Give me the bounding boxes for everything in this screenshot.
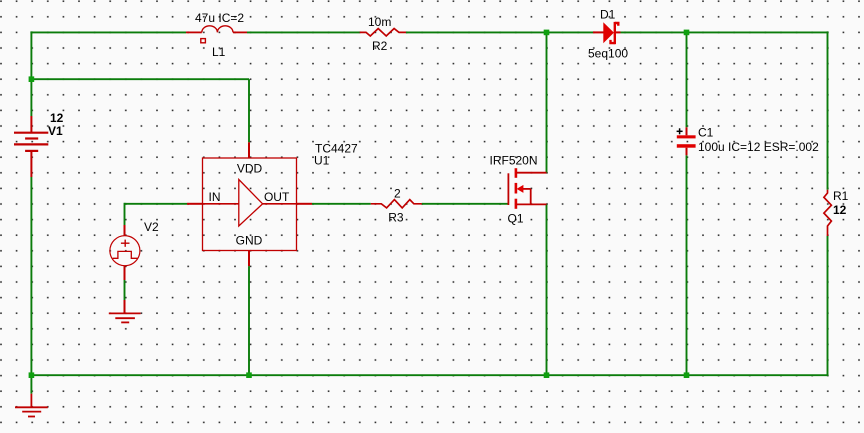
svg-text:GND: GND <box>236 234 263 248</box>
svg-text:5eq100: 5eq100 <box>588 47 628 61</box>
svg-text:Q1: Q1 <box>508 212 524 226</box>
svg-text:R2: R2 <box>372 39 388 53</box>
svg-text:U1: U1 <box>314 154 330 168</box>
svg-text:IN: IN <box>209 190 221 204</box>
svg-text:100u IC=12 ESR=.002: 100u IC=12 ESR=.002 <box>698 140 819 154</box>
svg-text:10m: 10m <box>368 15 391 29</box>
svg-text:D1: D1 <box>600 8 616 22</box>
svg-text:C1: C1 <box>698 126 714 140</box>
svg-text:OUT: OUT <box>264 190 290 204</box>
svg-text:R3: R3 <box>388 211 404 225</box>
svg-text:IRF520N: IRF520N <box>490 154 538 168</box>
svg-text:R1: R1 <box>833 189 849 203</box>
svg-text:47u IC=2: 47u IC=2 <box>195 11 244 25</box>
svg-text:V2: V2 <box>144 220 159 234</box>
svg-text:L1: L1 <box>212 45 226 59</box>
svg-text:VDD: VDD <box>237 161 263 175</box>
svg-text:12: 12 <box>50 111 64 125</box>
svg-text:2: 2 <box>394 187 401 201</box>
svg-text:V1: V1 <box>48 124 63 138</box>
svg-text:12: 12 <box>833 203 847 217</box>
